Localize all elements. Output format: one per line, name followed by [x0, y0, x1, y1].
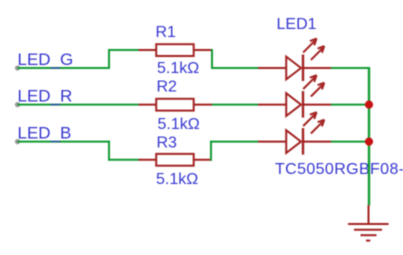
svg-text:5.1kΩ: 5.1kΩ — [157, 60, 199, 77]
LED1-G anode pin — [258, 67, 286, 69]
junction dot row B — [365, 138, 373, 146]
wire LED1-G to rail — [331, 67, 370, 69]
LED1-R anode pin — [258, 104, 286, 106]
svg-text:TC5050RGBF08-3C: TC5050RGBF08-3C — [275, 161, 403, 178]
LED1-R cathode pin — [303, 104, 331, 106]
svg-text:LED1: LED1 — [277, 16, 317, 33]
resistor R1 left pin — [139, 49, 156, 51]
LED1-G triangle — [286, 57, 301, 80]
ground stem — [368, 205, 370, 224]
LED1-B emission arrow 1 — [303, 112, 316, 126]
svg-text:LED_B: LED_B — [18, 124, 72, 143]
wire LED1-R to rail — [331, 104, 369, 106]
resistor R2 body — [156, 99, 194, 111]
wire LED_R horizontal — [18, 104, 139, 106]
wire R1 to LED drop — [211, 49, 213, 69]
resistor R2 right pin — [195, 104, 213, 106]
svg-text:5.1kΩ: 5.1kΩ — [158, 116, 200, 133]
svg-text:R3: R3 — [157, 135, 178, 152]
LED1-B anode pin — [258, 141, 286, 143]
svg-text:R2: R2 — [157, 79, 178, 96]
LED1-R triangle — [286, 93, 301, 116]
wire to LED1 red anode — [212, 104, 258, 106]
wire LED_G riser — [108, 49, 110, 69]
svg-text:R1: R1 — [156, 24, 177, 41]
wire into R3 — [108, 159, 140, 161]
LED1-B cathode pin — [303, 141, 331, 143]
pin dot LED_R — [15, 102, 20, 107]
resistor R1 right pin — [195, 49, 213, 51]
svg-text:LED_G: LED_G — [18, 50, 74, 69]
ground bar 3 — [361, 234, 377, 236]
resistor R3 left pin — [139, 159, 156, 161]
ground bar 4 — [366, 240, 370, 242]
wire LED_G horizontal — [18, 67, 111, 69]
LED1-G emission arrow 2 — [311, 46, 324, 60]
resistor R2 left pin — [139, 104, 156, 106]
LED1-R emission arrow 1 — [303, 75, 316, 89]
LED1-G emission arrow 1 — [303, 39, 316, 53]
resistor R1 body — [156, 44, 194, 56]
resistor R3 right pin — [195, 159, 213, 161]
svg-text:LED_R: LED_R — [18, 87, 73, 106]
wire LED1-B to rail — [331, 141, 369, 143]
wire to LED1 green anode — [211, 67, 258, 69]
LED1-B triangle — [286, 130, 301, 153]
LED1-B emission arrow 2 — [311, 120, 324, 134]
wire LED_B horizontal — [18, 141, 111, 143]
wire LED_B dropper — [108, 141, 110, 161]
pin dot LED_G — [15, 65, 20, 70]
wire into R1 — [108, 49, 140, 51]
LED1-R cathode bar — [302, 91, 304, 118]
wire R3 riser — [210, 141, 212, 161]
LED1-B cathode bar — [302, 128, 304, 155]
pin dot LED_B — [15, 139, 20, 144]
cathode rail wire — [368, 67, 370, 205]
junction dot row R — [365, 101, 373, 109]
ground bar 1 — [348, 223, 389, 225]
ground bar 2 — [354, 229, 382, 231]
LED1-G cathode bar — [302, 55, 304, 82]
resistor R3 body — [156, 154, 194, 166]
LED1-G cathode pin — [303, 67, 331, 69]
LED1-R emission arrow 2 — [311, 83, 324, 97]
wire to LED1 blue anode — [210, 141, 258, 143]
svg-text:5.1kΩ: 5.1kΩ — [156, 171, 198, 188]
